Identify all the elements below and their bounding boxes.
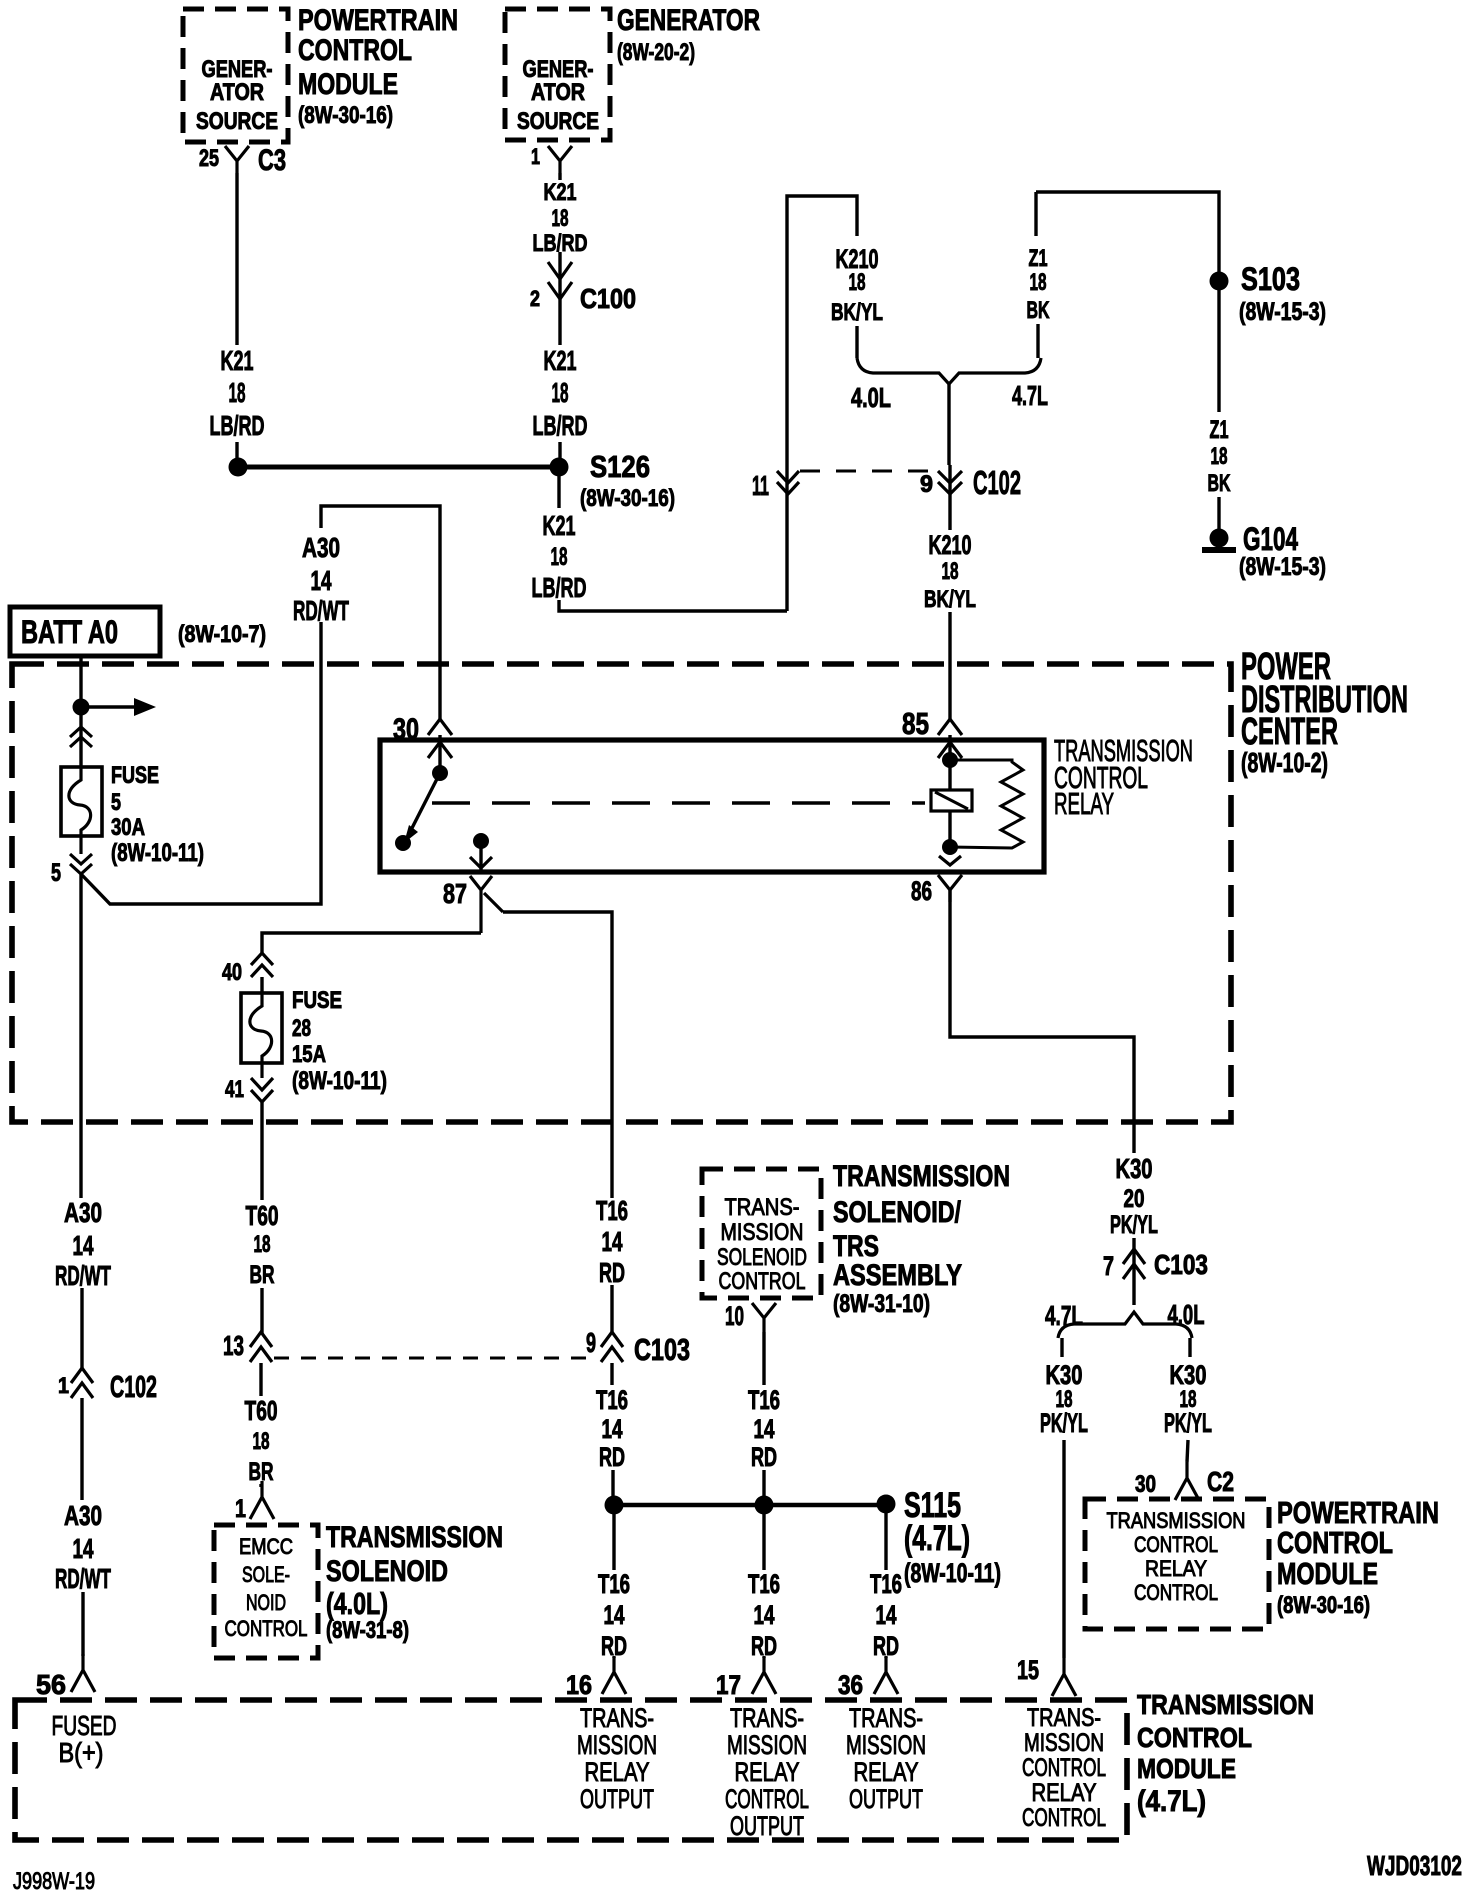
svg-text:28: 28: [292, 1016, 311, 1042]
svg-text:18: 18: [942, 559, 959, 585]
svg-text:PK/YL: PK/YL: [1164, 1408, 1212, 1438]
svg-text:(8W-10-2): (8W-10-2): [1241, 747, 1328, 778]
wire A30: [80, 1288, 83, 1370]
svg-text:RELAY: RELAY: [1054, 786, 1114, 821]
svg-text:SOLENOID/: SOLENOID/: [833, 1196, 961, 1229]
wire Z1 drop: [1034, 192, 1037, 236]
svg-text:(8W-10-11): (8W-10-11): [111, 839, 204, 867]
svg-text:RD: RD: [599, 1442, 625, 1472]
svg-text:CONTROL: CONTROL: [1134, 1580, 1218, 1605]
connector C102 pin 9 (double chevron down): [938, 471, 962, 483]
connector C103 pin 13 (double chevron up): [250, 1332, 272, 1347]
svg-text:OUTPUT: OUTPUT: [580, 1784, 654, 1814]
svg-text:14: 14: [602, 1226, 623, 1257]
component box: GENERATOR SOURCE (Powertrain Control Module): [183, 9, 288, 142]
svg-text:A30: A30: [64, 1500, 102, 1531]
svg-text:C100: C100: [580, 283, 636, 314]
svg-text:CONTROL: CONTROL: [1022, 1754, 1106, 1782]
connector pin 16 fork into TCM: [602, 1656, 626, 1694]
splice S103 (8W-15-3): [1210, 272, 1229, 291]
wire A30 to TCM pin 56: [81, 1592, 84, 1656]
svg-text:FUSE: FUSE: [111, 763, 159, 789]
svg-text:MISSION: MISSION: [1024, 1729, 1104, 1757]
wire Z1 below S103: [1217, 290, 1220, 412]
svg-text:9: 9: [586, 1327, 596, 1358]
svg-text:LB/RD: LB/RD: [533, 410, 588, 441]
svg-text:BK: BK: [1027, 298, 1050, 324]
svg-text:SOLENOID: SOLENOID: [326, 1555, 448, 1588]
svg-text:1: 1: [531, 144, 540, 169]
wire to splice line: [611, 1470, 614, 1505]
svg-text:K21: K21: [543, 510, 576, 541]
wire to ground: [1217, 497, 1220, 530]
wire into PDC to relay pin 85: [948, 612, 951, 719]
svg-text:14: 14: [73, 1533, 94, 1564]
wire K30 4.7L down to TCM pin 15: [1062, 1440, 1065, 1658]
svg-text:MODULE: MODULE: [1277, 1556, 1378, 1591]
svg-text:TRANS-: TRANS-: [580, 1703, 654, 1733]
wire T16 below 9: [610, 1363, 613, 1385]
svg-text:14: 14: [876, 1600, 897, 1630]
component box: GENERATOR SOURCE (Generator): [505, 9, 610, 140]
svg-text:RELAY: RELAY: [854, 1757, 919, 1787]
wire stub to switch pivot: [438, 735, 441, 773]
junction dot coil top: [942, 752, 958, 768]
wire T16 from relay 87: [503, 912, 612, 1198]
svg-text:18: 18: [849, 270, 866, 296]
svg-text:GENERATOR: GENERATOR: [617, 4, 760, 37]
svg-text:T16: T16: [596, 1385, 628, 1415]
svg-text:RELAY: RELAY: [1145, 1556, 1207, 1581]
wire to C102 pin 9: [947, 384, 950, 465]
connector pin 1 (fork) at generator: [548, 146, 572, 173]
svg-text:TRANSMISSION: TRANSMISSION: [833, 1160, 1010, 1193]
svg-text:B(+): B(+): [59, 1737, 104, 1768]
fuse 28 15A (8W-10-11): [241, 993, 282, 1063]
wire T16: [612, 1505, 615, 1570]
relay pin 86 connector: [939, 856, 961, 865]
svg-text:17: 17: [716, 1670, 741, 1700]
svg-text:CONTROL: CONTROL: [298, 34, 412, 67]
branch from pin 5 to relay pin 30 feed: [81, 622, 321, 904]
svg-text:14: 14: [73, 1230, 94, 1261]
svg-text:5: 5: [51, 859, 61, 887]
svg-text:ATOR: ATOR: [210, 80, 264, 106]
svg-text:SOURCE: SOURCE: [196, 109, 278, 135]
svg-text:EMCC: EMCC: [239, 1534, 293, 1559]
svg-text:RD: RD: [751, 1442, 777, 1472]
wire: [558, 442, 561, 458]
wire: [235, 442, 238, 458]
wire stub: [612, 1657, 615, 1658]
svg-text:86: 86: [911, 876, 932, 906]
svg-text:S103: S103: [1241, 261, 1300, 297]
svg-text:4.0L: 4.0L: [851, 382, 891, 413]
svg-text:14: 14: [602, 1414, 623, 1444]
wire T16: [884, 1505, 887, 1570]
wire: S126 down then right: [559, 600, 787, 611]
connector pin 10 fork from TRS: [752, 1303, 776, 1332]
svg-text:K30: K30: [1170, 1360, 1207, 1390]
splice dot S115: [877, 1495, 896, 1514]
brace merging 4.0L / 4.7L into C102: [857, 358, 1041, 384]
svg-text:RELAY: RELAY: [1032, 1779, 1097, 1807]
svg-text:RD/WT: RD/WT: [55, 1260, 111, 1291]
svg-text:C102: C102: [973, 465, 1021, 502]
brace splitting to 4.7L / 4.0L: [1058, 1312, 1192, 1338]
svg-text:CONTROL: CONTROL: [719, 1269, 806, 1295]
svg-text:BR: BR: [250, 1261, 275, 1289]
svg-text:18: 18: [253, 1429, 270, 1455]
connector pin 17 fork into TCM: [752, 1656, 776, 1694]
Power Distribution Center box: [12, 664, 1231, 1122]
svg-text:7: 7: [1103, 1251, 1114, 1281]
svg-text:18: 18: [1211, 444, 1228, 470]
component box: EMCC SOLENOID CONTROL: [214, 1525, 318, 1658]
svg-text:(8W-15-3): (8W-15-3): [1239, 298, 1326, 326]
svg-text:ATOR: ATOR: [531, 80, 585, 106]
splice S126 (8W-30-16): [550, 458, 569, 477]
connector pin 36 fork into TCM: [874, 1656, 898, 1694]
svg-text:TRANS-: TRANS-: [1027, 1704, 1101, 1732]
svg-text:SOLE-: SOLE-: [242, 1562, 290, 1587]
svg-text:S126: S126: [590, 449, 650, 484]
wire T16: [610, 1285, 613, 1334]
svg-text:(8W-20-2): (8W-20-2): [617, 40, 695, 66]
relay internal dashed actuation line: [432, 801, 925, 804]
svg-text:15A: 15A: [292, 1042, 326, 1068]
svg-text:PK/YL: PK/YL: [1040, 1408, 1088, 1438]
svg-text:4.7L: 4.7L: [1012, 380, 1048, 411]
svg-text:C103: C103: [1154, 1249, 1208, 1280]
wire stub: [884, 1657, 887, 1658]
svg-text:BK: BK: [1208, 471, 1231, 497]
wire stub: [259, 1484, 262, 1487]
coil shunt resistor zigzag: [950, 760, 1023, 848]
svg-text:RD/WT: RD/WT: [55, 1563, 111, 1594]
relay switch: pivot dot, blade, contact dot: [432, 765, 448, 781]
wire T60 below 13: [259, 1363, 262, 1396]
relay pin 85 connector: [938, 719, 962, 735]
svg-text:85: 85: [902, 706, 929, 741]
wire K21: [558, 173, 561, 180]
connector pin 1 fork into EMCC: [250, 1481, 274, 1519]
svg-text:K210: K210: [929, 530, 972, 560]
svg-text:16: 16: [566, 1670, 592, 1700]
svg-text:(4.0L): (4.0L): [326, 1586, 388, 1621]
svg-text:MISSION: MISSION: [846, 1730, 926, 1760]
svg-text:11: 11: [752, 470, 769, 501]
Transmission Control Module box: [15, 1700, 1127, 1840]
svg-text:A30: A30: [302, 532, 340, 563]
svg-text:T60: T60: [246, 1200, 279, 1231]
wire K30 from relay 86: [950, 890, 1134, 1153]
svg-text:14: 14: [754, 1600, 775, 1630]
svg-text:(4.7L): (4.7L): [1137, 1785, 1206, 1818]
svg-text:OUTPUT: OUTPUT: [849, 1784, 923, 1814]
svg-text:CENTER: CENTER: [1241, 710, 1338, 752]
svg-text:87: 87: [443, 878, 467, 909]
svg-text:G104: G104: [1243, 521, 1298, 557]
svg-text:MISSION: MISSION: [577, 1730, 657, 1760]
svg-text:SOLENOID: SOLENOID: [717, 1245, 807, 1271]
connector C102 pin 1 (double chevron up): [71, 1368, 93, 1383]
svg-text:5: 5: [111, 790, 121, 816]
svg-text:30: 30: [1135, 1472, 1156, 1498]
svg-text:1: 1: [58, 1373, 69, 1398]
junction dot: [755, 1496, 774, 1515]
svg-text:RELAY: RELAY: [735, 1757, 800, 1787]
svg-text:MISSION: MISSION: [721, 1220, 804, 1246]
svg-text:Z1: Z1: [1029, 246, 1048, 272]
dashed connector tie line 13 to 9: [274, 1357, 598, 1360]
svg-text:T16: T16: [598, 1569, 630, 1599]
svg-text:56: 56: [36, 1669, 66, 1700]
svg-text:30: 30: [393, 713, 419, 746]
svg-text:4.0L: 4.0L: [1168, 1299, 1205, 1330]
svg-text:RD: RD: [599, 1257, 625, 1288]
svg-text:SOURCE: SOURCE: [517, 109, 599, 135]
svg-text:18: 18: [552, 206, 569, 232]
inline connector (double chevron up) above fuse 5: [79, 707, 82, 768]
wire to splice line: [762, 1470, 765, 1505]
svg-text:CONTROL: CONTROL: [725, 1784, 809, 1814]
relay coil element (box with diagonal): [931, 790, 972, 811]
junction dot (left end of S126 splice): [229, 458, 248, 477]
svg-text:25: 25: [199, 146, 219, 172]
wire stub: [762, 1657, 765, 1658]
svg-text:10: 10: [725, 1301, 744, 1331]
svg-text:4.7L: 4.7L: [1045, 1300, 1083, 1331]
svg-text:14: 14: [754, 1414, 775, 1444]
junction dot with arrow tap: [73, 699, 90, 716]
svg-text:14: 14: [604, 1600, 625, 1630]
svg-text:CONTROL: CONTROL: [1022, 1804, 1106, 1832]
svg-text:15: 15: [1017, 1655, 1039, 1685]
svg-text:C3: C3: [258, 144, 286, 177]
wire K21: [558, 312, 561, 345]
wire K210 below C102: [948, 465, 951, 530]
svg-text:1: 1: [235, 1495, 246, 1523]
wire: splice bus between junction and S126: [238, 465, 559, 470]
BATT A0 feed box (8W-10-7): [10, 607, 160, 656]
svg-text:(8W-10-7): (8W-10-7): [178, 622, 266, 648]
svg-text:(8W-30-16): (8W-30-16): [298, 103, 393, 129]
wire: [855, 326, 858, 358]
wire A30 down through PDC: [79, 874, 82, 1198]
connector pin 15 fork into TCM: [1052, 1658, 1076, 1696]
svg-text:CONTROL: CONTROL: [225, 1616, 308, 1641]
wire A30 from BATT A0: [79, 656, 82, 706]
connector C2 pin 30 fork into PCM: [1175, 1462, 1199, 1500]
wire 4.7L branch: [1060, 1338, 1063, 1357]
svg-text:CONTROL: CONTROL: [1137, 1722, 1252, 1753]
svg-text:(8W-30-16): (8W-30-16): [580, 486, 675, 512]
svg-text:J998W-19: J998W-19: [13, 1869, 95, 1890]
svg-text:(8W-15-3): (8W-15-3): [1239, 553, 1326, 581]
svg-text:TRANSMISSION: TRANSMISSION: [1137, 1689, 1314, 1720]
svg-text:13: 13: [223, 1330, 244, 1361]
svg-text:9: 9: [920, 472, 933, 498]
connector C103 pin 7 (double chevron up): [1123, 1249, 1145, 1264]
wire over to relay pin 30: [321, 506, 440, 719]
junction dot: [605, 1496, 624, 1515]
wire T16 from TRS: [762, 1332, 765, 1385]
wire T60 through PDC edge: [260, 1102, 263, 1200]
svg-text:LB/RD: LB/RD: [210, 410, 265, 441]
svg-text:K30: K30: [1046, 1360, 1083, 1390]
svg-text:OUTPUT: OUTPUT: [730, 1811, 804, 1841]
svg-text:41: 41: [225, 1077, 244, 1103]
svg-text:MODULE: MODULE: [298, 68, 398, 101]
wire: [260, 977, 263, 994]
connector pin 5 (double chevron down) below fuse: [70, 854, 92, 864]
svg-text:K21: K21: [544, 345, 577, 376]
wire K21 18 LB/RD (from PCM C3): [235, 173, 238, 345]
junction dot coil bottom: [942, 839, 958, 855]
svg-text:C103: C103: [634, 1332, 690, 1367]
svg-text:TRANS-: TRANS-: [725, 1195, 800, 1221]
svg-text:(8W-30-16): (8W-30-16): [1277, 1593, 1370, 1619]
svg-text:TRANS-: TRANS-: [849, 1703, 923, 1733]
svg-text:A30: A30: [64, 1197, 102, 1228]
svg-text:TRANS-: TRANS-: [730, 1703, 804, 1733]
svg-text:RD/WT: RD/WT: [293, 595, 349, 626]
svg-text:18: 18: [254, 1232, 271, 1258]
arrow tap (feed continues): [81, 705, 134, 708]
transmission control relay outline: [380, 740, 1044, 872]
svg-text:BK/YL: BK/YL: [831, 300, 883, 326]
svg-text:18: 18: [1030, 270, 1047, 296]
wire 4.0L branch: [1188, 1338, 1191, 1357]
svg-text:(4.7L): (4.7L): [904, 1519, 970, 1558]
svg-text:RELAY: RELAY: [585, 1757, 650, 1787]
connector C103 pin 9 (double chevron up): [601, 1332, 623, 1347]
svg-text:K21: K21: [544, 180, 577, 206]
svg-text:LB/RD: LB/RD: [532, 572, 587, 603]
svg-text:K21: K21: [221, 345, 254, 376]
wire T16: [762, 1505, 765, 1570]
wire: [1036, 324, 1039, 358]
svg-text:C102: C102: [110, 1369, 157, 1404]
svg-text:FUSE: FUSE: [292, 988, 342, 1014]
svg-text:TRANSMISSION: TRANSMISSION: [1107, 1508, 1246, 1533]
svg-text:(8W-10-11): (8W-10-11): [292, 1067, 387, 1095]
wire through C100: [558, 252, 561, 312]
wire 85 to coil: [948, 735, 951, 790]
svg-text:T16: T16: [748, 1385, 780, 1415]
svg-text:NOID: NOID: [246, 1590, 286, 1615]
svg-text:30A: 30A: [111, 815, 145, 841]
svg-text:C2: C2: [1207, 1466, 1234, 1497]
svg-text:20: 20: [1124, 1185, 1145, 1213]
svg-text:CONTROL: CONTROL: [1134, 1532, 1218, 1557]
wire K30 4.0L down to PCM C2: [1187, 1440, 1188, 1462]
wire: top run to S103: [1036, 192, 1219, 272]
wire: up left riser, over, down to K210 label: [787, 196, 857, 611]
svg-text:WJD03102: WJD03102: [1367, 1850, 1462, 1881]
dashed connector tie line 11 to 9: [800, 470, 938, 473]
svg-text:MISSION: MISSION: [727, 1730, 807, 1760]
wire A30 below C102: [80, 1398, 83, 1500]
svg-text:Z1: Z1: [1210, 416, 1229, 444]
fuse 5 30A (8W-10-11): [61, 767, 102, 836]
component box: TRANSMISSION CONTROL RELAY CONTROL (PCM): [1085, 1499, 1269, 1629]
svg-text:18: 18: [551, 543, 568, 571]
svg-text:(8W-10-11): (8W-10-11): [904, 1558, 1001, 1588]
connector pin 41 (double chevron down): [251, 1078, 273, 1090]
svg-text:CONTROL: CONTROL: [1277, 1525, 1393, 1560]
component box: TRANSMISSION SOLENOID CONTROL (TRS): [702, 1169, 821, 1298]
svg-text:BATT A0: BATT A0: [21, 614, 118, 650]
svg-text:18: 18: [552, 377, 569, 408]
svg-text:(8W-31-8): (8W-31-8): [326, 1618, 409, 1644]
svg-text:36: 36: [838, 1670, 863, 1700]
connector pin 40 (double chevron up): [251, 953, 273, 965]
svg-text:K30: K30: [1116, 1153, 1153, 1184]
wire through C103 pin 7: [1132, 1238, 1135, 1305]
svg-text:MODULE: MODULE: [1137, 1753, 1236, 1784]
svg-text:T60: T60: [245, 1395, 278, 1426]
relay pin 30 connector (nested chevrons across box edge): [428, 719, 452, 735]
svg-text:T16: T16: [748, 1569, 780, 1599]
splice S115 (4.7L) (8W-10-11) bus: [613, 1503, 886, 1508]
svg-text:BK/YL: BK/YL: [924, 587, 976, 613]
wire coil to 86: [948, 811, 951, 848]
svg-text:18: 18: [229, 377, 246, 408]
svg-text:TRANSMISSION: TRANSMISSION: [326, 1521, 503, 1554]
connector pin 56 fork into TCM: [71, 1654, 95, 1692]
svg-text:T16: T16: [596, 1195, 628, 1226]
svg-text:40: 40: [222, 960, 242, 986]
svg-text:T16: T16: [870, 1569, 902, 1599]
relay pin 87 connector: [473, 833, 489, 849]
wire K21 below S126: [557, 476, 560, 508]
svg-text:POWERTRAIN: POWERTRAIN: [298, 4, 458, 37]
svg-text:ASSEMBLY: ASSEMBLY: [833, 1259, 962, 1292]
svg-text:(8W-31-10): (8W-31-10): [833, 1290, 930, 1318]
svg-text:2: 2: [530, 286, 540, 311]
connector C3 pin 25 (fork): [225, 146, 249, 173]
connector C100 pin 2 (inline, double chevron down): [548, 262, 572, 279]
wire T60 branch from 87 to fuse 28: [262, 933, 481, 953]
inline connector pin 11 (C102, double chevron down): [777, 471, 799, 483]
wire T60: [260, 1288, 263, 1334]
svg-text:PK/YL: PK/YL: [1110, 1211, 1158, 1239]
ground G104 (8W-15-3): [1210, 529, 1229, 548]
svg-text:14: 14: [311, 565, 332, 596]
